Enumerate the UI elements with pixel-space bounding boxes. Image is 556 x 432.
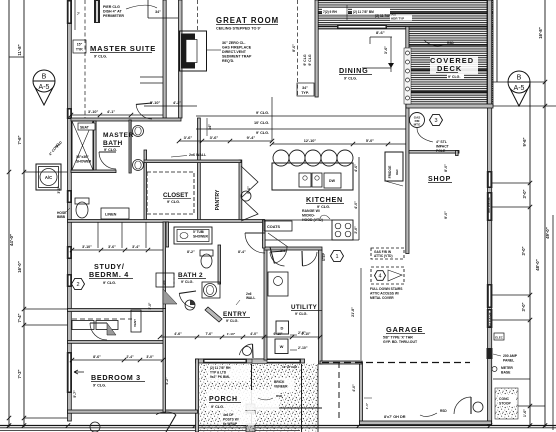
svg-text:9' CLG.: 9' CLG. <box>93 384 106 388</box>
shower east wall <box>94 121 97 172</box>
bedroom3 dim line <box>72 359 163 361</box>
bath2 toilet <box>200 250 213 256</box>
pantry door knob <box>241 191 251 201</box>
svg-text:9'-0": 9'-0" <box>444 211 448 219</box>
svg-text:3'-10": 3'-10" <box>82 245 92 249</box>
conc stoop <box>495 388 518 419</box>
ceiling line 10clg <box>196 128 406 130</box>
brick edge line <box>317 364 319 432</box>
15 typ box <box>73 40 86 53</box>
fireplace leader <box>207 49 221 51</box>
great room west wall <box>179 0 183 118</box>
svg-text:8'-0": 8'-0" <box>444 164 448 172</box>
bath2 door knob <box>185 300 195 310</box>
fridge <box>385 152 403 181</box>
right inner dimension line <box>529 82 531 427</box>
svg-text:3'-0": 3'-0" <box>146 355 154 359</box>
shop interior wall <box>409 151 459 154</box>
svg-text:9' CLG: 9' CLG <box>308 54 312 65</box>
sheet edge line <box>552 215 554 430</box>
brick ledge line <box>251 407 322 409</box>
svg-text:METER: METER <box>501 366 513 370</box>
svg-text:9' CLG.: 9' CLG. <box>167 200 180 204</box>
svg-text:5'-0": 5'-0" <box>366 139 374 143</box>
svg-text:SHOP: SHOP <box>428 176 451 183</box>
master closet dashed shelving <box>147 172 194 214</box>
dim line garage window <box>492 294 530 296</box>
svg-text:REF: REF <box>395 169 399 175</box>
svg-text:36" ZERO CL.: 36" ZERO CL. <box>222 41 245 45</box>
svg-text:SEDIMENT TRAP: SEDIMENT TRAP <box>222 55 252 59</box>
svg-text:RANGE W/: RANGE W/ <box>302 209 320 213</box>
deck south wall <box>406 104 493 108</box>
garage side door arc <box>454 397 471 414</box>
porch post 2 <box>246 424 255 432</box>
garage door knob <box>473 402 483 412</box>
svg-text:4x6 DF: 4x6 DF <box>223 413 234 417</box>
svg-text:34": 34" <box>208 124 212 130</box>
bath 2 east wall <box>218 245 221 284</box>
svg-text:CEILING STEPPED TO 9': CEILING STEPPED TO 9' <box>216 27 261 31</box>
master suite shelf line 2 <box>140 82 163 84</box>
dim tick <box>528 181 532 185</box>
window, bedroom3 south closet doors <box>72 321 94 330</box>
dim tick <box>22 170 26 174</box>
dashed garage door track <box>338 362 340 421</box>
dim tick <box>66 423 70 427</box>
gas meter <box>410 113 425 128</box>
dashed ceiling line master suite <box>84 0 86 118</box>
kitchen island <box>272 163 353 190</box>
svg-text:PORCH: PORCH <box>209 396 238 403</box>
svg-text:BATH 2: BATH 2 <box>178 272 203 279</box>
closet-pantry north wall <box>144 160 241 163</box>
svg-text:7'-6": 7'-6" <box>205 332 213 336</box>
dashed line dining west <box>297 0 299 96</box>
porch north wall <box>196 359 305 363</box>
shower seat <box>78 123 95 130</box>
deck post <box>406 69 410 73</box>
front door arc <box>239 344 252 355</box>
deck post <box>406 78 410 82</box>
right exterior wall <box>488 0 492 425</box>
dining east / shop west wall <box>406 27 409 254</box>
bath2 tub <box>174 227 212 244</box>
svg-text:RSD: RSD <box>447 41 454 45</box>
dashed line great room <box>197 0 199 31</box>
roof band thick line <box>315 12 493 14</box>
svg-text:8'-6": 8'-6" <box>292 44 296 52</box>
dim tick <box>528 404 532 408</box>
svg-text:PERIMETER: PERIMETER <box>103 14 124 18</box>
counter edge south inner <box>262 219 332 221</box>
bath 2 west wall upper <box>166 222 169 247</box>
svg-text:5'-10": 5'-10" <box>150 101 161 105</box>
window, right wall <box>487 171 493 188</box>
porch east edge <box>301 364 303 432</box>
dim arrow dining <box>388 63 394 68</box>
svg-text:RSD: RSD <box>276 394 283 398</box>
deck thick plank line 2 <box>408 69 492 71</box>
left outer dimension line <box>8 0 10 427</box>
study dim line <box>72 249 163 251</box>
svg-text:9'-4": 9'-4" <box>247 135 256 140</box>
leader line pier note <box>126 5 157 9</box>
front door leaf <box>252 359 267 364</box>
study closet partition 3 <box>145 222 147 248</box>
svg-text:10' CLG.: 10' CLG. <box>254 121 269 125</box>
svg-text:4" STL: 4" STL <box>436 140 447 144</box>
keynote hexagon 1 <box>331 250 344 261</box>
svg-text:7'-2": 7'-2" <box>17 369 22 378</box>
dim line <box>24 417 68 419</box>
svg-text:1'-6": 1'-6" <box>523 409 527 417</box>
attic access dashed box <box>371 267 404 284</box>
svg-text:2'-6": 2'-6" <box>354 226 358 234</box>
counter edge south <box>262 239 359 241</box>
deck right edge column <box>487 0 493 105</box>
garage west wall upper <box>319 250 323 364</box>
svg-text:SEAT: SEAT <box>80 126 90 130</box>
dim line deck bottom <box>492 105 556 107</box>
svg-text:44'-0": 44'-0" <box>9 234 14 246</box>
svg-text:7'-6": 7'-6" <box>17 135 22 144</box>
covered deck roof hatch band <box>315 0 493 27</box>
tub inner <box>177 230 209 242</box>
svg-text:8'-4": 8'-4" <box>238 250 246 254</box>
gas f/b dashed box <box>371 248 404 259</box>
svg-text:3'-10": 3'-10" <box>88 110 99 114</box>
dim line garage window <box>492 319 530 321</box>
deck post <box>406 51 410 55</box>
svg-text:9' CLG: 9' CLG <box>303 54 307 65</box>
master suite shelf line <box>140 76 163 78</box>
bedroom3 door arc <box>90 323 107 340</box>
dim tick <box>7 170 11 174</box>
dim line <box>24 308 68 310</box>
svg-text:2'-4": 2'-4" <box>126 355 134 359</box>
svg-text:3'-6": 3'-6" <box>108 245 116 249</box>
svg-text:3: 3 <box>434 118 437 124</box>
deck post <box>406 96 410 100</box>
svg-text:BEDROOM 3: BEDROOM 3 <box>91 373 141 382</box>
svg-text:4: 4 <box>378 274 381 280</box>
svg-text:VENEER: VENEER <box>274 385 288 389</box>
svg-text:9' CLG.: 9' CLG. <box>103 281 116 285</box>
dim tick <box>7 416 11 420</box>
svg-text:PANTRY: PANTRY <box>215 189 221 210</box>
wall poche wedge <box>163 289 177 304</box>
garage west wall lower <box>360 362 363 424</box>
deck thick plank line <box>408 44 492 46</box>
svg-text:A-5: A-5 <box>39 84 50 91</box>
washer dryer <box>276 321 289 334</box>
bar stool <box>305 150 321 166</box>
door knob bottom <box>90 422 100 432</box>
meter circle <box>492 367 497 372</box>
svg-text:3'-6": 3'-6" <box>210 135 219 140</box>
vent chase <box>131 310 141 332</box>
svg-text:GREAT ROOM: GREAT ROOM <box>216 16 279 25</box>
svg-text:TYP.: TYP. <box>301 91 309 95</box>
svg-text:6x WRAP: 6x WRAP <box>223 422 238 426</box>
svg-text:POSTS W/: POSTS W/ <box>223 418 239 422</box>
lav sink 2 <box>133 160 144 171</box>
dim line to A/C <box>24 171 68 173</box>
svg-text:(2) 11 7/8" BM: (2) 11 7/8" BM <box>353 10 374 14</box>
master bath south wall at shower <box>71 170 116 173</box>
window, left wall <box>67 108 72 119</box>
deck post <box>406 60 410 64</box>
svg-text:METAL COVER: METAL COVER <box>370 296 394 300</box>
svg-text:D: D <box>281 326 284 331</box>
svg-text:3'-0": 3'-0" <box>521 246 526 255</box>
leader hose bibb <box>66 208 70 212</box>
dim line shop window <box>492 182 530 184</box>
section balloon B/A-5 left <box>34 86 54 106</box>
window, master suite north <box>94 0 100 23</box>
svg-text:FRIDGE: FRIDGE <box>388 165 392 179</box>
svg-text:4'-0": 4'-0" <box>354 201 358 209</box>
bedroom 3 closet south wall <box>68 341 166 344</box>
svg-text:3'-0": 3'-0" <box>57 186 61 194</box>
svg-text:2'-6": 2'-6" <box>298 331 306 335</box>
shop wall stub <box>456 151 459 156</box>
svg-text:TYP & LTD: TYP & LTD <box>210 371 227 375</box>
dim tick <box>528 423 532 427</box>
label COVERED DECK <box>430 56 478 74</box>
dim extension <box>271 97 273 141</box>
svg-text:9' CLG.: 9' CLG. <box>226 319 238 323</box>
svg-text:COATS: COATS <box>267 225 280 229</box>
dim tick <box>488 423 492 427</box>
dim tick <box>22 416 26 420</box>
svg-text:8'-6": 8'-6" <box>93 355 101 359</box>
svg-text:BATH: BATH <box>103 140 123 147</box>
beam notes on roof hatch <box>322 9 348 15</box>
svg-text:9' CLG.: 9' CLG. <box>256 111 269 115</box>
svg-text:49'-0": 49'-0" <box>545 227 550 238</box>
pantry east wall <box>239 160 242 221</box>
entry east / utility west wall <box>264 248 267 360</box>
utility door arc 2 <box>303 252 318 266</box>
svg-text:9x2" PK BML: 9x2" PK BML <box>210 375 230 379</box>
bedroom 3 north wall <box>68 309 166 312</box>
svg-text:REQ'D.: REQ'D. <box>222 59 234 63</box>
svg-text:PIER CLG: PIER CLG <box>103 5 120 9</box>
svg-text:DW: DW <box>329 179 336 183</box>
svg-text:GAS FIREPLACE: GAS FIREPLACE <box>222 46 252 50</box>
svg-text:3'-4": 3'-4" <box>132 245 140 249</box>
svg-text:BASE: BASE <box>501 371 511 375</box>
dim tick <box>22 423 26 427</box>
34 typ box <box>297 83 314 96</box>
bar stool <box>337 150 353 166</box>
utility counter <box>268 272 288 296</box>
svg-text:B: B <box>517 75 522 82</box>
svg-text:2'-10": 2'-10" <box>298 346 308 350</box>
left exterior wall <box>68 0 72 421</box>
master vanity sinks <box>130 120 132 172</box>
deck post <box>406 87 410 91</box>
svg-text:8'-6": 8'-6" <box>376 30 385 35</box>
window, left wall <box>67 190 72 203</box>
svg-text:8'x7' OH DR: 8'x7' OH DR <box>384 415 406 419</box>
window, left wall <box>67 352 72 393</box>
svg-text:ATTIC ACCESS W/: ATTIC ACCESS W/ <box>370 292 399 296</box>
svg-text:3'-0": 3'-0" <box>522 189 527 198</box>
kitchen sink <box>299 173 311 187</box>
svg-text:11'-8": 11'-8" <box>17 44 22 55</box>
svg-text:4'-2": 4'-2" <box>173 101 181 105</box>
dim line deck <box>492 81 545 83</box>
dim line shop window <box>492 206 530 208</box>
dim tick <box>528 293 532 297</box>
deck thick plank line 3 <box>408 91 492 93</box>
svg-text:7'-4": 7'-4" <box>17 313 22 322</box>
svg-text:5' TUB/: 5' TUB/ <box>193 230 204 234</box>
svg-text:2: 2 <box>76 282 79 288</box>
bar stool <box>321 150 337 166</box>
master toilet <box>75 198 89 204</box>
svg-text:21'-8": 21'-8" <box>351 307 355 317</box>
master bath north wall <box>71 118 181 121</box>
svg-text:4'-1": 4'-1" <box>107 110 115 114</box>
covered deck floor hatch <box>407 27 493 105</box>
svg-text:3'-0": 3'-0" <box>521 302 526 311</box>
bar stool <box>273 150 289 166</box>
bottom dimension baseline <box>0 425 556 427</box>
A/C condenser unit <box>36 164 61 190</box>
svg-text:KITCHEN: KITCHEN <box>306 195 343 204</box>
dim tick <box>543 80 547 84</box>
window, dining north <box>337 25 387 30</box>
closet west wall <box>144 150 147 221</box>
svg-text:4'-0": 4'-0" <box>250 332 258 336</box>
svg-text:LIN: LIN <box>162 281 166 286</box>
svg-text:1: 1 <box>335 254 338 260</box>
hall dim line <box>160 336 320 338</box>
svg-text:9' CLG.: 9' CLG. <box>181 280 193 284</box>
svg-text:W: W <box>280 344 284 349</box>
window, left wall <box>67 274 72 287</box>
porch post <box>246 404 255 413</box>
bedroom 3 south wall <box>68 410 198 413</box>
utility door arc <box>270 252 285 266</box>
svg-text:PANEL: PANEL <box>503 359 514 363</box>
range <box>332 220 353 240</box>
nook shelf <box>148 17 178 19</box>
dining west wall <box>315 0 318 97</box>
svg-text:3'-6": 3'-6" <box>184 135 193 140</box>
great room nook wall <box>147 0 149 18</box>
svg-text:dbl 2x6 HK: dbl 2x6 HK <box>488 311 492 327</box>
utility north wall <box>264 247 322 250</box>
study closet partition <box>97 222 99 248</box>
svg-text:(2) 11 7/8" RH: (2) 11 7/8" RH <box>210 366 231 370</box>
dim tick <box>528 205 532 209</box>
garage south wall <box>360 421 492 425</box>
svg-text:MICRO-: MICRO- <box>302 214 316 218</box>
dishwasher <box>324 173 341 188</box>
porch stippled floor <box>199 364 319 432</box>
dim ext 7 <box>74 0 76 30</box>
svg-text:16"x8" BM: 16"x8" BM <box>282 365 298 369</box>
svg-text:RSD: RSD <box>440 409 447 413</box>
dim tick <box>7 423 11 427</box>
window, porch/entry south <box>203 359 247 364</box>
window, left wall <box>67 0 72 24</box>
svg-text:9'-6": 9'-6" <box>522 137 527 146</box>
svg-text:9' CLG.: 9' CLG. <box>94 55 107 59</box>
svg-text:16'-8": 16'-8" <box>538 27 543 38</box>
svg-text:BIBB: BIBB <box>57 215 66 219</box>
coats door arc <box>274 247 287 263</box>
svg-text:3'-0": 3'-0" <box>148 302 152 309</box>
svg-text:MASTER SUITE: MASTER SUITE <box>90 44 156 53</box>
dim tick <box>543 104 547 108</box>
svg-text:9' CLG.: 9' CLG. <box>256 131 269 135</box>
svg-text:5/8" TYPE 'X' THR: 5/8" TYPE 'X' THR <box>383 336 413 340</box>
lav sink 1 <box>133 126 144 137</box>
dim tick <box>357 423 361 427</box>
svg-text:4'-6": 4'-6" <box>174 332 182 336</box>
hall linen closet <box>156 273 174 287</box>
svg-text:3'-6": 3'-6" <box>384 46 388 54</box>
svg-text:8'-2": 8'-2" <box>187 250 195 254</box>
svg-text:FULL DOWN STAIRS: FULL DOWN STAIRS <box>370 287 403 291</box>
dashed garage ceiling break <box>322 362 470 364</box>
dim tick <box>22 323 26 327</box>
svg-text:BEDRM. 4: BEDRM. 4 <box>89 270 129 279</box>
svg-text:DINING: DINING <box>339 66 368 75</box>
bath2 door arc <box>179 293 194 308</box>
svg-text:ATTIC (VTD): ATTIC (VTD) <box>374 254 393 258</box>
porch column line <box>251 364 253 432</box>
svg-text:SHOWER: SHOWER <box>76 160 92 164</box>
svg-text:5'-7": 5'-7" <box>73 390 77 398</box>
band bottom wall line <box>315 28 493 30</box>
deck-east fence line <box>496 0 498 82</box>
section balloon B/A-5 right <box>509 87 529 107</box>
svg-text:CONC: CONC <box>499 397 510 401</box>
svg-text:ELEC: ELEC <box>495 335 502 339</box>
interior dim line <box>179 140 272 142</box>
svg-text:4'-2": 4'-2" <box>165 377 169 385</box>
dim line <box>71 114 163 116</box>
svg-text:34": 34" <box>155 10 161 14</box>
svg-text:4'-0": 4'-0" <box>352 384 356 392</box>
coats closet <box>264 221 292 231</box>
bedroom3 south door arc <box>156 412 176 415</box>
svg-text:A-5: A-5 <box>514 85 525 92</box>
svg-text:1'-10": 1'-10" <box>227 332 236 336</box>
right outer dimension line <box>544 0 546 427</box>
dim line kitchen top <box>272 143 406 145</box>
svg-text:HDR TYP: HDR TYP <box>391 17 404 21</box>
svg-text:UTILITY: UTILITY <box>291 304 318 311</box>
svg-text:GARAGE: GARAGE <box>386 325 423 334</box>
svg-text:BRICK: BRICK <box>274 380 285 384</box>
bar stool <box>289 150 305 166</box>
svg-text:5'-6": 5'-6" <box>247 186 251 194</box>
svg-text:9' CLG.: 9' CLG. <box>104 148 117 152</box>
svg-text:200 AMP: 200 AMP <box>503 354 518 358</box>
svg-text:GYP. BD. THRU-OUT: GYP. BD. THRU-OUT <box>383 340 418 344</box>
svg-text:VENT: VENT <box>133 319 137 327</box>
keynote hexagon 3 <box>430 114 443 125</box>
porch west wall <box>196 359 199 432</box>
